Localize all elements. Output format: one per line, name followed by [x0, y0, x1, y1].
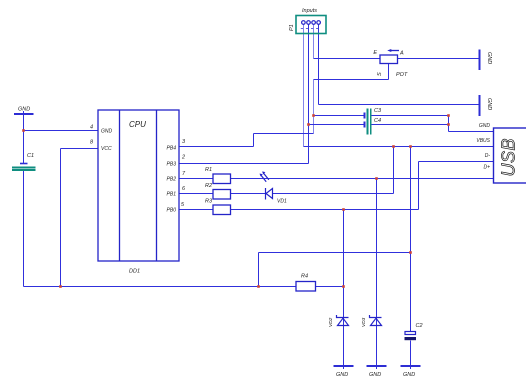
resistor R1 — [213, 174, 231, 184]
wire PB4 step horizontal y133 — [254, 133, 314, 135]
svg-text:GND: GND — [486, 52, 492, 64]
svg-text:C3: C3 — [374, 108, 382, 114]
potentiometer POT — [380, 51, 399, 64]
svg-text:P1: P1 — [289, 24, 295, 31]
wire connector pin3 stem down — [313, 25, 315, 59]
svg-text:4: 4 — [90, 125, 93, 131]
wire wiper branch vertical x313 — [313, 80, 315, 134]
wire R1 to USB D+ — [231, 178, 494, 180]
svg-text:PB0: PB0 — [167, 208, 177, 214]
wire bottom rail left — [24, 286, 297, 288]
ground GND bar right 2 — [480, 95, 493, 116]
svg-text:DD1: DD1 — [129, 269, 140, 275]
svg-text:VCC: VCC — [101, 146, 112, 152]
resistor R3 — [213, 205, 231, 215]
wire VBUS horizontal to USB — [304, 146, 494, 148]
wire riser x448 to USB GND — [448, 116, 450, 132]
ground GND bottom 3 — [401, 366, 421, 378]
op-amp CPU block DD1 — [98, 110, 179, 261]
wire USB GND horizontal — [449, 131, 494, 133]
resistor R2 — [213, 190, 231, 200]
wire C4 left — [309, 124, 365, 126]
wire GND-left vertical drop — [23, 111, 25, 164]
svg-text:PB1: PB1 — [167, 192, 177, 198]
svg-text:S: S — [377, 72, 383, 76]
svg-text:GND: GND — [479, 123, 491, 129]
svg-text:GND: GND — [403, 372, 415, 378]
svg-text:C4: C4 — [374, 118, 381, 124]
wire vertical riser x258 — [258, 253, 260, 287]
wire VBUS column down to C2 — [410, 147, 412, 332]
svg-text:C1: C1 — [27, 153, 34, 159]
wire R2 to LED VD1 — [231, 193, 266, 195]
capacitor C3 C4 plates — [365, 109, 371, 135]
svg-text:E: E — [373, 50, 377, 56]
capacitor C1 — [12, 153, 36, 170]
wire to GND bar 2 — [319, 104, 479, 106]
svg-text:D+: D+ — [483, 165, 490, 171]
svg-text:2: 2 — [181, 155, 185, 161]
ground top-left GND — [14, 107, 34, 115]
ground GND bar top right 1 — [480, 50, 493, 71]
svg-text:VD3: VD3 — [361, 317, 367, 327]
diode zener VD3 — [370, 315, 382, 326]
wire PB2 pin7 to R1 — [179, 178, 213, 180]
wire connector pin4 stem down — [318, 25, 320, 105]
ground GND bottom 2 — [367, 366, 387, 378]
svg-text:GND: GND — [336, 372, 348, 378]
diode zener VD2 — [337, 315, 349, 326]
wire horizontal rail y252 — [259, 252, 411, 254]
wire D- to USB — [419, 161, 494, 163]
svg-text:PB3: PB3 — [167, 162, 177, 168]
svg-text:GND: GND — [18, 107, 30, 113]
wire VCC column — [60, 149, 62, 287]
wire riser x418 D- — [418, 162, 420, 210]
svg-text:CPU: CPU — [129, 120, 146, 129]
svg-text:VD1: VD1 — [277, 199, 287, 205]
svg-text:PB2: PB2 — [167, 177, 177, 183]
LED VD1 — [260, 172, 272, 199]
svg-text:R1: R1 — [205, 167, 212, 173]
wire CPU pin4 GND horizontal — [24, 130, 99, 132]
wire connector pin1 stem down — [303, 25, 305, 147]
wire connector pin2 stem down — [308, 25, 310, 164]
USB connector — [476, 123, 526, 183]
resistor R4 — [296, 282, 316, 292]
wire CPU pin8 VCC horizontal — [61, 148, 99, 150]
wire C4 right — [372, 124, 449, 126]
wire R4 right to zener column — [316, 286, 344, 288]
svg-text:D-: D- — [485, 153, 491, 159]
wire pot wiper horizontal — [314, 79, 389, 81]
svg-text:Inputs: Inputs — [302, 8, 317, 14]
wire PB3 pin2 horizontal — [179, 163, 309, 165]
wire C3 right — [372, 115, 449, 117]
svg-text:R3: R3 — [205, 199, 213, 205]
wire C2 bottom to ground — [410, 341, 412, 370]
svg-text:POT: POT — [396, 72, 408, 78]
svg-text:VD2: VD2 — [328, 317, 334, 327]
ground GND bottom 1 — [334, 366, 354, 378]
svg-text:PB4: PB4 — [167, 146, 177, 152]
wire riser x393 to VBUS line — [393, 147, 395, 194]
wire zener VD3 column — [376, 179, 378, 370]
wire PB0 pin5 D- horizontal — [179, 209, 419, 211]
svg-text:GND: GND — [101, 129, 113, 135]
wire PB1 pin6 to R2 — [179, 193, 213, 195]
node junction dots — [22, 114, 450, 288]
wire C3 left — [314, 115, 365, 117]
svg-text:USB: USB — [499, 138, 519, 177]
wire C1 bottom to bottom rail — [23, 171, 25, 287]
svg-text:A: A — [399, 51, 404, 57]
connector P1 Inputs — [289, 8, 326, 34]
capacitor C2 — [405, 323, 423, 340]
wire PB4 step vertical x253 — [253, 134, 255, 147]
svg-text:R4: R4 — [301, 274, 308, 280]
wire LED VD1 to riser x393 — [273, 193, 394, 195]
wire PB4 pin3 horizontal — [179, 146, 254, 148]
wire zener VD2 column — [343, 210, 345, 370]
svg-text:VBUS: VBUS — [476, 138, 490, 144]
svg-text:GND: GND — [486, 98, 492, 110]
wire pot A terminal to GND bar 1 — [398, 58, 479, 60]
wire pot wiper vertical — [388, 64, 390, 80]
svg-text:GND: GND — [369, 372, 381, 378]
svg-text:R2: R2 — [205, 183, 212, 189]
svg-text:C2: C2 — [416, 323, 423, 329]
wire pot E terminal — [314, 58, 381, 60]
